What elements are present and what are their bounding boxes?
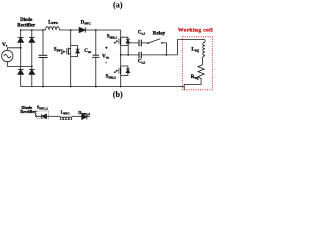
svg-text:-: -	[105, 60, 107, 65]
capacitor Cr2	[139, 52, 141, 59]
label Diode Rectifier (b)	[20, 105, 36, 114]
node: SPFC top rail	[70, 29, 72, 31]
body diode of SHB2	[121, 66, 130, 75]
wire: part b output stub	[87, 116, 90, 118]
inductor Leq	[203, 40, 205, 56]
transistor SPFC (boost switch)	[61, 30, 71, 87]
label DPFC2	[78, 110, 90, 116]
svg-text:Req: Req	[191, 74, 199, 80]
label SPFC1	[37, 104, 48, 110]
transistor SHB2 (half-bridge low side)	[114, 66, 121, 75]
wire: half-bridge midpoint	[121, 54, 178, 56]
svg-text:(a): (a)	[113, 1, 123, 10]
label (b)	[113, 90, 123, 99]
transistor SHB1 (half-bridge high side)	[114, 37, 121, 45]
svg-text:SPFC: SPFC	[54, 47, 64, 52]
wire: part b input stub	[36, 113, 42, 116]
diode bridge D3 (left bottom)	[18, 69, 24, 74]
wire: bridge left leg	[20, 30, 22, 87]
label Working coil	[178, 28, 213, 34]
switch box SPFC1 (dashed)	[37, 111, 49, 119]
label Cdc	[84, 49, 92, 54]
svg-text:Rectifier: Rectifier	[20, 109, 36, 114]
inductor LPFC	[46, 27, 60, 30]
svg-text:SHB,1: SHB,1	[107, 35, 118, 40]
wire: working coil return	[184, 81, 201, 90]
svg-text:Relay: Relay	[153, 30, 166, 36]
wire: top DC rail	[21, 29, 121, 31]
svg-text:Vs: Vs	[2, 42, 8, 48]
node: midpoint at column	[120, 54, 122, 56]
svg-text:LPFC: LPFC	[48, 20, 58, 25]
body diode of SPFC	[71, 46, 80, 57]
relay contact	[147, 39, 163, 44]
node: bridge right leg top	[31, 29, 33, 31]
node: bridge left leg top	[20, 29, 22, 31]
label SPFC	[54, 47, 64, 52]
label Leq	[191, 46, 199, 52]
wire: relay to midpoint wire	[162, 43, 167, 55]
node: Cf top	[42, 29, 44, 31]
svg-text:Rectifier: Rectifier	[17, 23, 36, 28]
wire: bridge right leg	[31, 30, 33, 87]
node: riser branch	[127, 54, 129, 56]
capacitor Cdc (DC link)	[92, 30, 99, 87]
svg-text:Cr,1: Cr,1	[138, 30, 146, 35]
node: Cf bottom	[42, 86, 44, 88]
svg-text:Cr,2: Cr,2	[138, 60, 146, 65]
wire: source bottom lead	[7, 62, 32, 67]
node: source tap left leg	[20, 47, 22, 49]
wire: Cr1 to relay	[141, 42, 148, 44]
diode bridge D4 (right bottom)	[29, 69, 35, 74]
svg-text:Cdc: Cdc	[84, 49, 92, 54]
diode DPFC	[79, 27, 85, 32]
svg-text:Vdc: Vdc	[102, 54, 110, 60]
wire: LPFC to DPFC2	[72, 115, 83, 117]
label Vdc minus	[105, 60, 107, 65]
wire: half-bridge column	[120, 30, 122, 87]
svg-text:+: +	[105, 47, 108, 52]
svg-text:SPFC,1: SPFC,1	[37, 104, 48, 110]
svg-text:(b): (b)	[113, 90, 123, 99]
label LPFC (b)	[61, 109, 71, 115]
svg-text:Working coil: Working coil	[178, 28, 213, 34]
capacitor Cr1	[139, 40, 141, 47]
label Vdc	[102, 54, 110, 60]
wire: Leq to Req	[203, 55, 205, 65]
diode of SPFC1 (points left)	[42, 114, 47, 119]
label Vdc plus	[105, 47, 108, 52]
wire: riser to working coil	[178, 40, 206, 55]
node: source tap right leg	[31, 66, 33, 68]
node: half-bridge bottom rail	[120, 86, 122, 88]
label Cr1	[138, 30, 146, 35]
wire: box to LPFC	[46, 115, 60, 117]
label SHB1	[107, 35, 118, 40]
node: Cdc top rail	[95, 29, 97, 31]
wire: source top lead	[7, 48, 20, 51]
wire: bottom DC rail	[21, 86, 185, 88]
node: Cdc bottom rail	[95, 86, 97, 88]
node: SPFC bottom rail	[70, 86, 72, 88]
diode bridge D2 (right top)	[29, 37, 35, 42]
svg-text:LPFC: LPFC	[61, 109, 71, 115]
resistor Req	[198, 65, 204, 81]
label Diode Rectifier (a)	[17, 18, 36, 28]
node: relay branch joins midpoint wire	[166, 54, 168, 56]
diode bridge D1 (left top)	[18, 37, 24, 42]
AC source Vs	[2, 50, 13, 61]
body diode of SHB1	[121, 37, 130, 45]
label Vs	[2, 42, 8, 48]
label (a)	[113, 1, 123, 10]
capacitor Cf (filter)	[39, 30, 48, 87]
label DPFC	[81, 21, 92, 26]
wire: riser to Cr1 branch	[128, 43, 139, 55]
working coil box (red dashed)	[182, 37, 212, 90]
label LPFC	[48, 20, 58, 25]
label Req	[191, 74, 199, 80]
label Cr2	[138, 60, 146, 65]
inductor LPFC (b)	[60, 117, 71, 120]
svg-text:DPFC: DPFC	[81, 21, 92, 26]
svg-text:DPFC,2: DPFC,2	[78, 110, 90, 116]
label Relay	[153, 30, 166, 36]
label SHB2	[106, 74, 117, 79]
svg-text:Leq: Leq	[191, 46, 199, 52]
svg-text:SHB,2: SHB,2	[106, 74, 117, 79]
diode DPFC2	[82, 114, 87, 119]
